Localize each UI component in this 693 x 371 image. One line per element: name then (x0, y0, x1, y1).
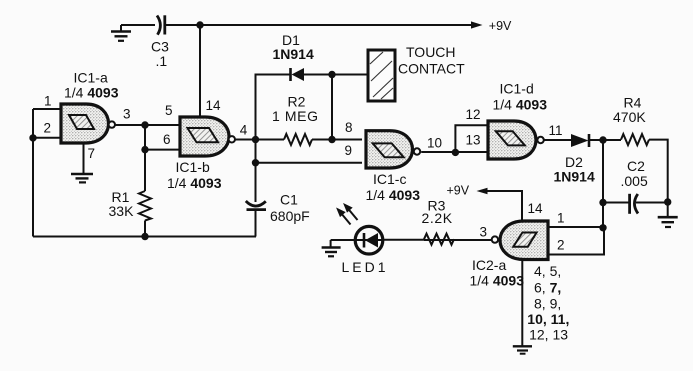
gate IC1-d (488, 121, 544, 159)
svg-text:6, 7,: 6, 7, (534, 279, 561, 295)
svg-text:IC1-a: IC1-a (74, 70, 108, 86)
wire (IC1-a pin 1) (33, 108, 61, 110)
node (D2 / R4 / C2 rail) (599, 136, 606, 143)
LED1 emission arrows (337, 204, 358, 225)
node (pin 6 junction) (141, 146, 148, 153)
svg-text:10, 11,: 10, 11, (527, 311, 569, 327)
gate IC1-c (366, 131, 420, 168)
svg-text:IC1-d: IC1-d (500, 81, 534, 97)
wire (IC1-d output pin 11 to D2) (544, 139, 571, 141)
svg-text:7: 7 (88, 146, 96, 161)
node (pin 1 junction) (599, 224, 606, 231)
wire (top rail left of C3) (121, 24, 155, 26)
resistor R3 (424, 234, 454, 245)
node (pin 3 / pin 5 / R1) (141, 121, 148, 128)
node (D1 / touch plate / R2 branch) (328, 71, 335, 78)
svg-text:IC2-a: IC2-a (472, 257, 506, 273)
wire (left feedback vertical) (32, 109, 34, 237)
svg-text:IC1-b: IC1-b (176, 159, 210, 175)
wire (top rail C3 to +9V arrow) (165, 24, 473, 26)
wire (node down to R2 right) (331, 75, 333, 140)
wire (C2 left lead) (603, 202, 629, 204)
node (pin 10 / pin 12 branch) (452, 149, 459, 156)
node (R2 right / D1 branch) (328, 136, 335, 143)
svg-text:12: 12 (466, 107, 481, 122)
wire (up to pin 12) (455, 125, 490, 152)
wire (IC2-a output pin 3 to R3) (424, 239, 492, 241)
node (pin 4 node) (252, 136, 259, 143)
svg-text:680pF: 680pF (270, 208, 310, 224)
node (pin 9 junction) (252, 159, 259, 166)
wire (C2 right lead) (636, 202, 668, 204)
diode D2 (571, 134, 589, 147)
wire (LED to ground) (331, 239, 355, 241)
touch contact plate (368, 50, 395, 101)
wire (D2 to node) (589, 139, 621, 141)
ground (C2 right) (658, 202, 678, 227)
svg-text:2: 2 (44, 120, 52, 135)
wire (IC1-c output pin 10 to IC1-d pin 13) (421, 151, 490, 153)
op-amp U? gate IC1-a (61, 104, 115, 143)
node (C2 left) (599, 199, 606, 206)
capacitor C2 (630, 194, 638, 214)
svg-text:33K: 33K (109, 203, 135, 219)
svg-text:14: 14 (206, 98, 222, 113)
svg-text:2.2K: 2.2K (422, 210, 453, 226)
svg-text:5: 5 (165, 103, 173, 118)
gate IC2-a (mirrored) (492, 221, 548, 260)
node (top rail / IC1-b pin 14) (196, 21, 203, 28)
svg-text:.005: .005 (621, 173, 648, 189)
wire (IC1-a output pin 3 to IC1-b pin 5) (115, 124, 180, 126)
svg-text:3: 3 (123, 106, 131, 121)
wire (IC2-a pin 14 to +9V) (487, 191, 522, 220)
svg-text:10: 10 (427, 135, 442, 150)
wire (IC1-b pin 6) (145, 149, 180, 151)
ground (IC1-a pin 7) (71, 143, 93, 182)
svg-text:1 MEG: 1 MEG (272, 108, 319, 124)
node (pin 2 / feedback) (29, 134, 36, 141)
wire (IC2-a pin 1) (549, 226, 603, 228)
svg-text:12, 13: 12, 13 (529, 327, 568, 343)
wire (R3 to LED) (384, 239, 424, 241)
svg-text:4: 4 (240, 122, 248, 137)
power +9V (top-right arrow) (471, 21, 483, 28)
svg-text:+9V: +9V (489, 19, 512, 33)
wire (down to C1) (255, 140, 257, 203)
wire (IC2-a pin 2) (549, 228, 604, 255)
svg-text:LED1: LED1 (342, 259, 389, 275)
resistor R4 (621, 134, 649, 145)
gate IC1-b (180, 117, 235, 156)
svg-text:1/4 4093: 1/4 4093 (493, 96, 548, 112)
svg-text:TOUCH: TOUCH (406, 44, 456, 60)
ground (top-left, C3) (111, 25, 131, 41)
svg-text:1N914: 1N914 (273, 46, 314, 62)
svg-text:8, 9,: 8, 9, (534, 295, 561, 311)
wire (rail D2 node down to pin1 node) (602, 140, 604, 228)
wire (node down to pin 6 and R1) (144, 125, 146, 191)
capacitor C3 (157, 15, 165, 34)
wire (IC1-b output pin 4 to R2) (235, 139, 284, 141)
svg-text:8: 8 (345, 120, 353, 135)
wire (pin4 node up to D1) (256, 75, 291, 140)
svg-text:1: 1 (557, 210, 565, 225)
ground (IC2-a pins) (513, 346, 532, 353)
capacitor C1 (246, 201, 266, 210)
wire (C1 bottom to feedback) (255, 210, 257, 237)
svg-text:14: 14 (528, 201, 544, 216)
wire (IC2-a unused pins to ground) (521, 260, 523, 347)
wire (IC1-b pin 14 vertical) (199, 25, 201, 117)
svg-text:+9V: +9V (447, 183, 470, 197)
svg-text:470K: 470K (613, 109, 646, 125)
wire (pin 9 from pin4 node) (256, 162, 363, 164)
ground (LED1) (322, 240, 341, 256)
svg-text:2: 2 (557, 238, 565, 253)
wire (bottom feedback) (33, 236, 256, 238)
power +9V (IC2-a arrow) (477, 188, 488, 195)
node (C2 right / R4 rail) (664, 198, 671, 205)
svg-text:1/4 4093: 1/4 4093 (366, 187, 421, 203)
wire (R2 right to IC1-c pin 8) (312, 139, 362, 141)
svg-text:.1: .1 (156, 53, 168, 69)
svg-text:1/4 4093: 1/4 4093 (470, 272, 525, 288)
wire (IC1-a pin 2) (33, 137, 61, 139)
svg-text:1/4 4093: 1/4 4093 (64, 85, 119, 101)
svg-text:4, 5,: 4, 5, (534, 263, 561, 279)
svg-text:1: 1 (44, 94, 52, 109)
LED1 (355, 226, 384, 254)
svg-text:11: 11 (549, 123, 563, 138)
resistor R2 (284, 134, 312, 145)
svg-text:6: 6 (163, 132, 171, 147)
svg-text:C2: C2 (627, 158, 645, 174)
wire (R4 right down to C2 right) (649, 140, 668, 202)
resistor R1 (139, 191, 151, 221)
svg-text:1N914: 1N914 (554, 168, 595, 184)
svg-text:CONTACT: CONTACT (398, 61, 465, 77)
svg-text:13: 13 (466, 132, 481, 147)
node (R1 bottom / feedback) (141, 233, 148, 240)
svg-text:1/4 4093: 1/4 4093 (167, 175, 222, 191)
svg-text:C1: C1 (280, 192, 298, 208)
svg-text:3: 3 (480, 225, 488, 240)
diode D1 (291, 68, 305, 81)
svg-text:9: 9 (345, 143, 353, 158)
wire (D1 to touch plate) (304, 74, 368, 76)
svg-text:IC1-c: IC1-c (373, 171, 406, 187)
